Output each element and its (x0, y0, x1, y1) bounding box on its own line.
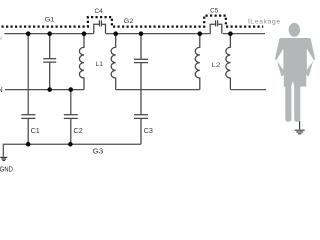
svg-text:G3: G3 (93, 147, 104, 156)
svg-text:N: N (0, 87, 3, 94)
svg-text:L2: L2 (211, 62, 220, 69)
wire lower rail middle (116, 89, 200, 91)
inductor L1 winding B (111, 34, 116, 90)
wire branch x=70.8 (lower rail to C2) (70, 90, 72, 115)
person silhouette (leakage path body) (275, 23, 315, 122)
person ground symbol (295, 121, 305, 134)
node G2 (124, 18, 134, 25)
svg-text:L1: L1 (96, 61, 104, 68)
inductor L2 winding B (226, 34, 231, 90)
inductor L2 winding A (195, 34, 200, 90)
capacitor C4 (94, 20, 106, 33)
svg-text:G2: G2 (124, 18, 134, 25)
svg-text:C3: C3 (144, 126, 153, 135)
capacitor C3 (134, 115, 148, 145)
svg-text:GND: GND (0, 164, 13, 173)
capacitor C2 label (74, 126, 83, 135)
stray mark top-left edge (0, 37, 2, 40)
capacitor CX1 (x=49.7) (43, 34, 56, 90)
svg-text:Leakage: Leakage (250, 18, 280, 25)
node G1 (45, 17, 55, 24)
ILeakage label (248, 16, 281, 25)
junction dots lower rail (47, 87, 73, 92)
node N (left edge) (0, 87, 3, 94)
capacitor C1 (21, 115, 35, 145)
wire top rail left (4, 33, 93, 35)
ground GND label (0, 164, 13, 173)
wire top rail middle (106, 33, 211, 35)
inductor L2 label (211, 62, 220, 69)
node G3 label (93, 147, 104, 156)
capacitor C5 label (210, 8, 219, 15)
capacitor C2 (64, 115, 78, 145)
wire top rail right (223, 33, 265, 35)
svg-text:C5: C5 (210, 8, 219, 15)
capacitor C5 (210, 20, 222, 33)
capacitor CX2 (x=141) (134, 34, 148, 115)
wire lower rail left (5, 89, 84, 91)
svg-text:C1: C1 (31, 126, 40, 135)
junction dots ground rail (26, 142, 73, 147)
svg-text:C2: C2 (74, 126, 83, 135)
wire lower rail right (230, 89, 266, 91)
ground GND symbol (0, 157, 7, 160)
inductor L1 label (96, 61, 104, 68)
inductor L1 winding A (79, 34, 84, 90)
capacitor C3 label (144, 126, 153, 135)
wire ground rail G3 (3, 144, 141, 156)
person arm gaps (276, 49, 314, 70)
capacitor C4 label (95, 8, 104, 15)
capacitor C1 label (31, 126, 40, 135)
leakage current dotted path (2, 16, 264, 27)
junction dots top rail (26, 31, 233, 36)
svg-text:C4: C4 (95, 8, 104, 15)
wire branch x=27.7 (top rail to C1) (27, 34, 29, 115)
svg-text:G1: G1 (45, 17, 55, 24)
